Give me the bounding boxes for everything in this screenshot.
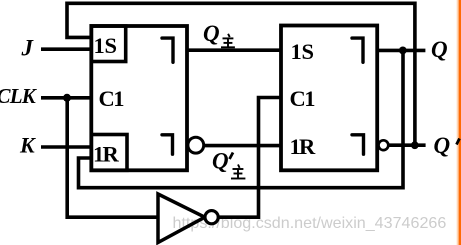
flip-flop FF1 (master) block outline xyxy=(91,26,187,170)
wire: slave Q' output xyxy=(388,143,425,147)
svg-text:C1: C1 xyxy=(99,86,125,111)
inverter G1 triangle xyxy=(158,194,205,243)
svg-text:1S: 1S xyxy=(291,39,314,64)
op bubble: master Q' inverted output xyxy=(188,137,204,153)
svg-text:Q: Q xyxy=(203,21,220,46)
svg-text:Q: Q xyxy=(431,37,448,62)
op bubble: slave Q' inverted output xyxy=(379,140,389,150)
postponed-output bracket FF2 top xyxy=(352,38,363,62)
wire: CLK input to master C1 xyxy=(41,96,92,100)
svg-text:1R: 1R xyxy=(290,134,316,159)
node: junction dot on Q' output xyxy=(411,141,419,149)
wire: master Q' to slave 1R xyxy=(204,144,282,148)
wire: K input xyxy=(41,145,92,149)
decorative orange edge strip xyxy=(456,0,461,245)
svg-text:J: J xyxy=(21,36,35,61)
wire: feedback from Q node down and around to master 1R gate input xyxy=(79,50,404,187)
inverter G1 bubble xyxy=(205,211,218,224)
node label Q_master subscript CJK zhu xyxy=(221,34,235,48)
svg-text:K: K xyxy=(19,133,36,158)
wire: slave Q output xyxy=(377,49,425,53)
svg-text:CLK: CLK xyxy=(0,84,38,108)
svg-text:Q: Q xyxy=(434,133,451,158)
wire: feedback net from Q' node up over the top to master 1S gate input xyxy=(67,3,415,145)
node: CLK junction dot xyxy=(63,94,71,102)
prime of Q'_master xyxy=(230,153,234,160)
postponed-output bracket FF2 bottom xyxy=(352,135,364,154)
node label Q'_master subscript CJK zhu xyxy=(231,165,245,179)
svg-text:1R: 1R xyxy=(93,142,119,167)
FF1 1S gate box xyxy=(91,26,125,62)
wire: master Q to slave 1S xyxy=(187,48,282,52)
svg-text:Q: Q xyxy=(212,149,229,174)
wire: CLK down to inverter input xyxy=(67,98,158,217)
FF1 1R gate box xyxy=(91,135,127,171)
wire: J input xyxy=(41,47,92,51)
node: junction dot on Q output xyxy=(399,47,407,55)
prime of output Q' xyxy=(457,139,460,145)
svg-text:1S: 1S xyxy=(94,33,117,58)
svg-text:C1: C1 xyxy=(290,86,316,111)
flip-flop FF2 (slave) block outline xyxy=(281,26,377,171)
postponed-output bracket FF1 bottom xyxy=(162,135,173,154)
wire: inverter output up to slave C1 xyxy=(218,98,282,218)
postponed-output bracket FF1 top xyxy=(162,38,173,62)
